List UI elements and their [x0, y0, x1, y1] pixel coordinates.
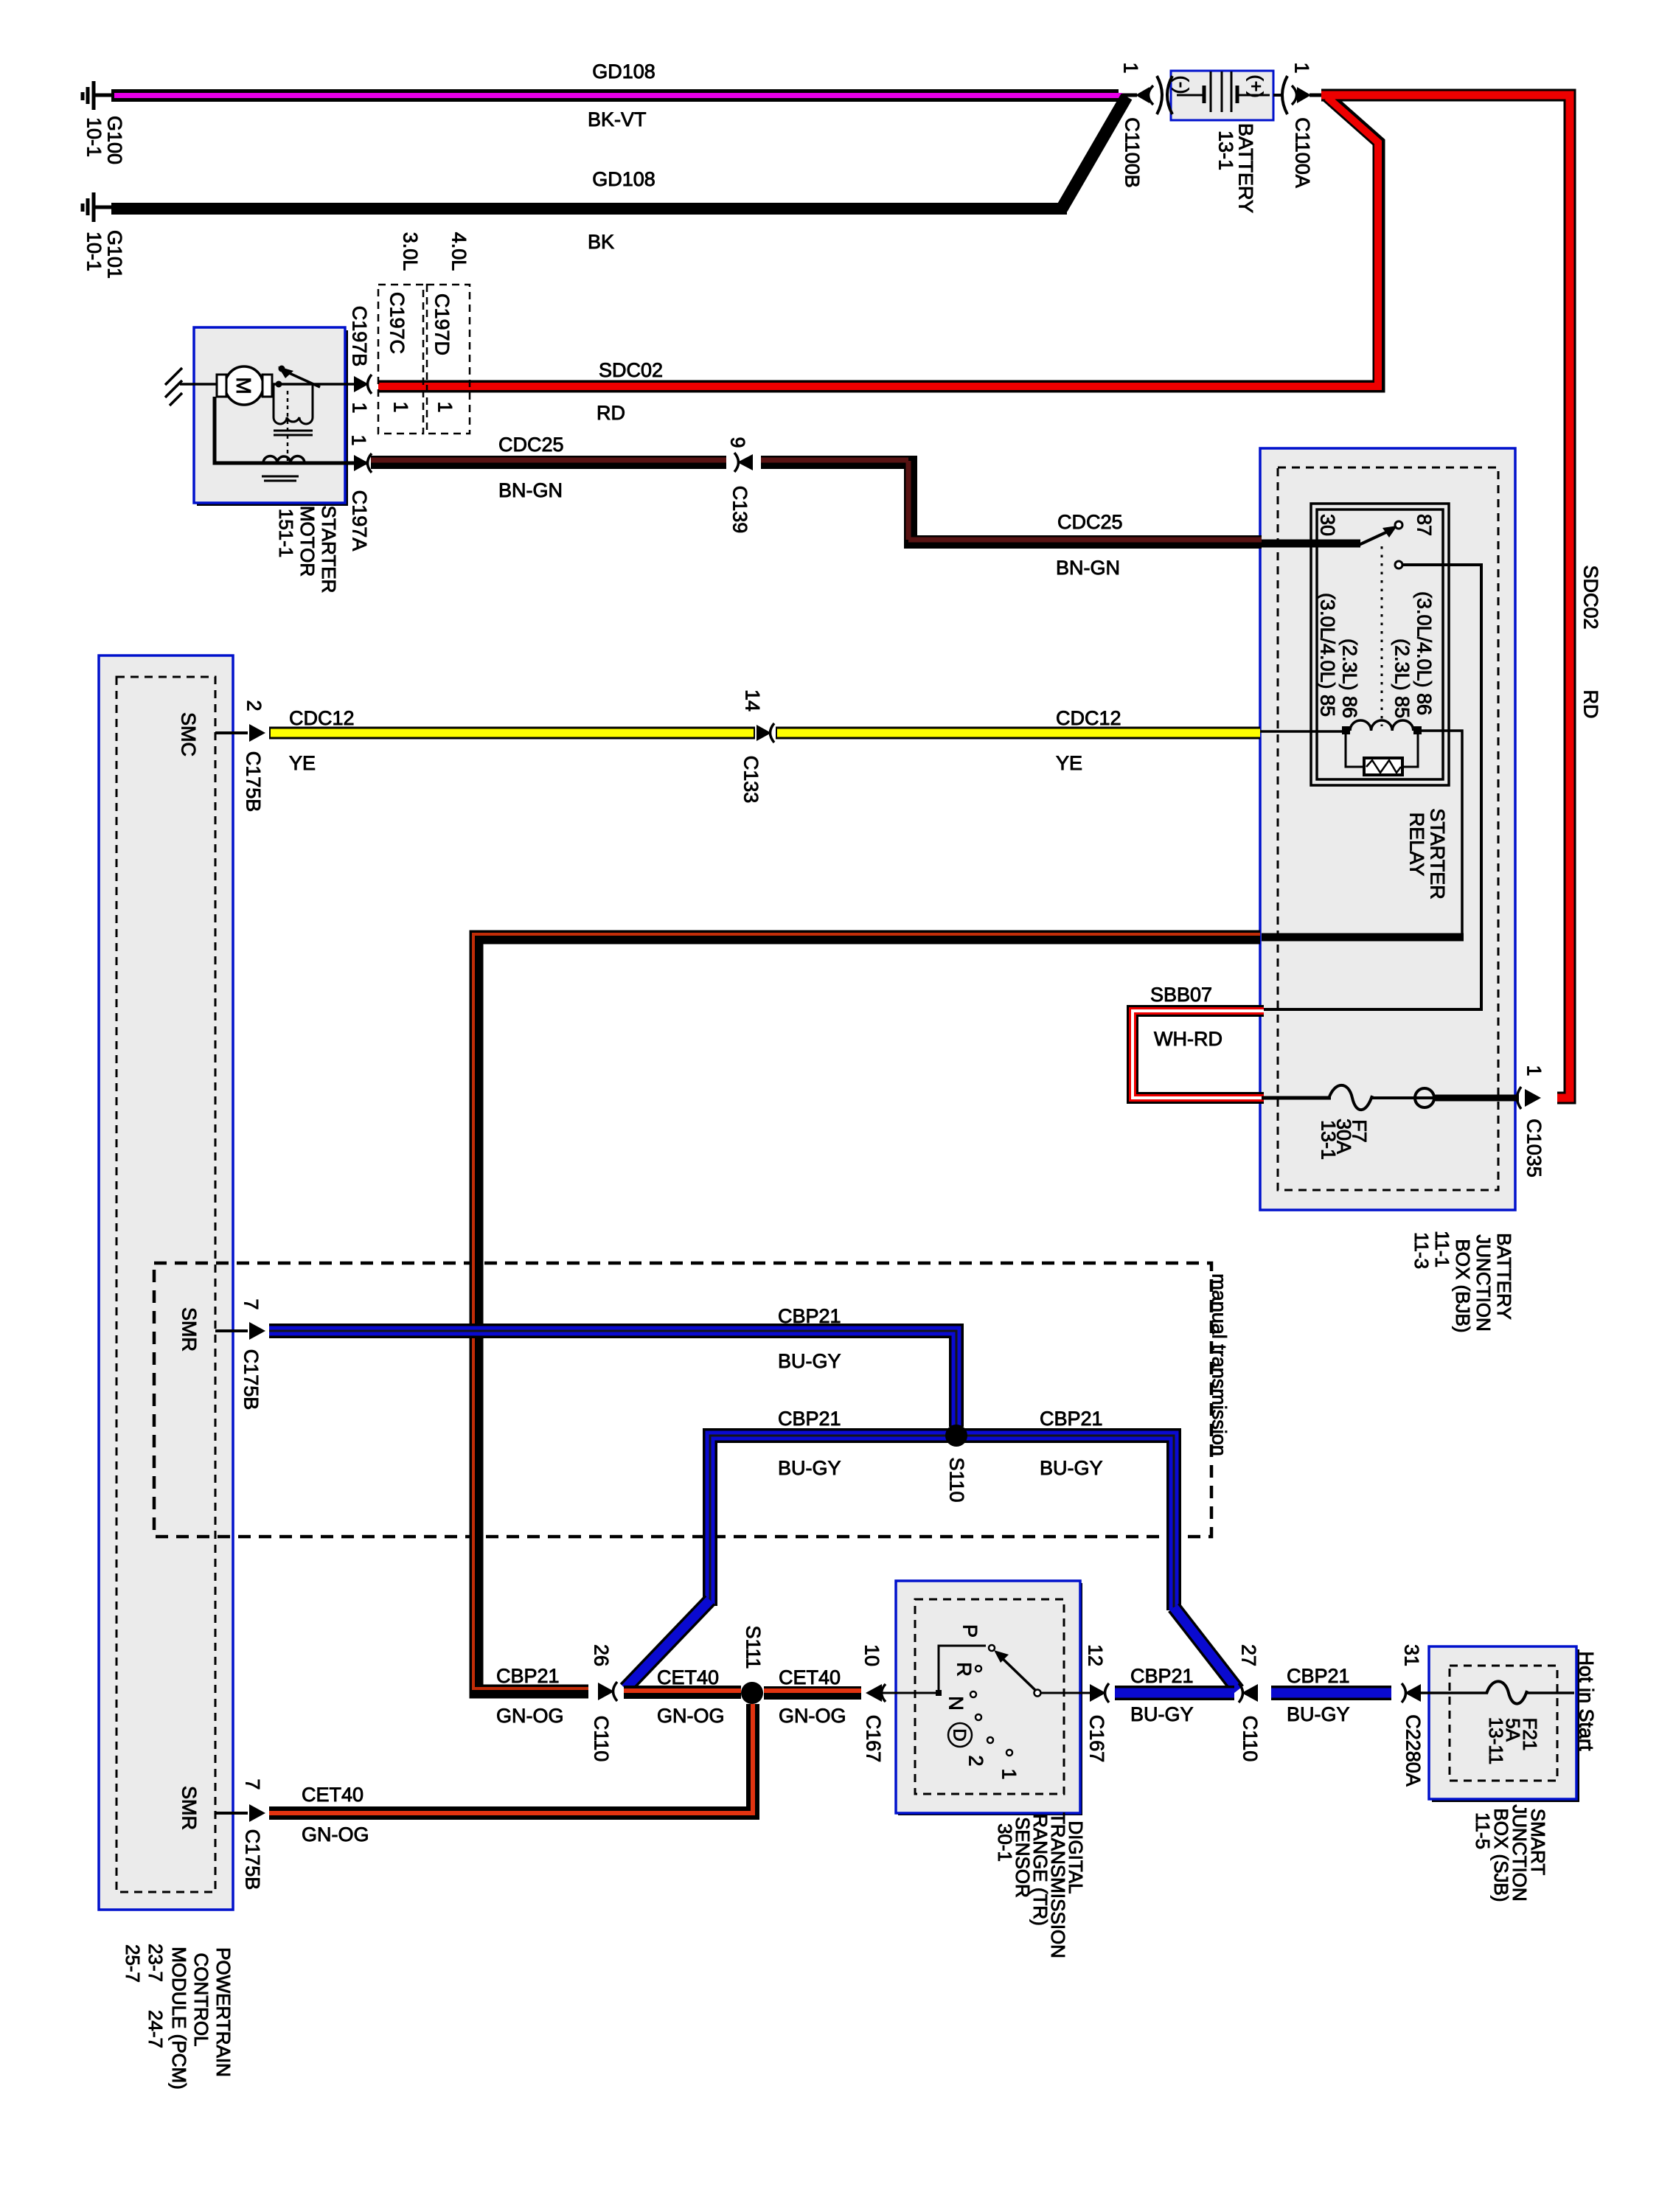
wire CET40 GN-OG from PCM SMR bottom to S111 [215, 1812, 248, 1815]
svg-text:13-1: 13-1 [1318, 1120, 1340, 1160]
svg-text:CBP21: CBP21 [778, 1408, 841, 1430]
wire CDC25 BN-GN from starter to C139 [371, 456, 726, 469]
svg-text:BN-GN: BN-GN [1056, 557, 1120, 579]
svg-text:C167: C167 [863, 1715, 885, 1763]
smart junction box SJB [1429, 1646, 1576, 1799]
svg-text:POWERTRAIN: POWERTRAIN [212, 1947, 234, 2077]
svg-text:Hot in Start: Hot in Start [1576, 1651, 1598, 1751]
wire CBP21 BU-GY S110 horizontal [710, 1436, 1174, 1610]
svg-text:CBP21: CBP21 [1287, 1665, 1350, 1687]
svg-text:BK-VT: BK-VT [588, 108, 647, 131]
svg-text:BU-GY: BU-GY [778, 1350, 841, 1372]
wire CDC12 YE right segment [776, 727, 1260, 740]
connector C1100A arrow [1297, 87, 1311, 103]
svg-text:1: 1 [349, 402, 371, 413]
wire CBP21 BU-GY C110 to C2280A [1271, 1686, 1391, 1700]
svg-text:C1100A: C1100A [1292, 117, 1314, 188]
wire SDC02 RD branch diagonal to starter [378, 97, 1379, 386]
svg-text:P: P [959, 1624, 981, 1638]
starter solenoid switch line [272, 383, 369, 386]
svg-text:RD: RD [1580, 690, 1602, 719]
solenoid dashed actuator [287, 391, 289, 462]
TR contacts [989, 1645, 995, 1651]
wire CDC12 YE left segment [269, 727, 755, 740]
svg-text:SDC02: SDC02 [1580, 565, 1602, 629]
connector C133 arrow [757, 725, 771, 741]
svg-text:CET40: CET40 [302, 1784, 364, 1806]
svg-text:GN-OG: GN-OG [302, 1823, 369, 1846]
svg-text:31: 31 [1401, 1644, 1423, 1666]
connector C139 arrow [737, 454, 753, 470]
svg-text:(-): (-) [1171, 76, 1192, 94]
wire CET40 GN-OG S111 to C167 pin 10 [764, 1686, 861, 1700]
wire SBB07 WH-RD loop [1133, 1011, 1264, 1098]
connector C197B arrow [354, 376, 369, 392]
digital transmission range TR sensor box [896, 1581, 1080, 1813]
connector C2280A pin 31 arrow [1405, 1684, 1421, 1702]
ground G101 [83, 192, 114, 222]
resistor parallel links [1346, 734, 1364, 767]
svg-text:C197B: C197B [349, 306, 371, 367]
relay switch arm [1359, 531, 1389, 545]
svg-text:YE: YE [289, 752, 316, 774]
svg-text:G100: G100 [104, 116, 126, 164]
svg-text:BU-GY: BU-GY [1287, 1703, 1350, 1725]
svg-text:GN-OG: GN-OG [779, 1705, 846, 1727]
connector C1100A parens [1282, 76, 1287, 114]
svg-text:SMC: SMC [178, 712, 200, 757]
svg-text:1: 1 [348, 434, 370, 445]
fuse F7 [1329, 1085, 1372, 1110]
svg-text:JUNCTION: JUNCTION [1472, 1234, 1495, 1331]
svg-text:BATTERY: BATTERY [1493, 1233, 1515, 1320]
svg-text:C1100B: C1100B [1121, 117, 1144, 188]
blue diagonal to C110 pin 27 [1174, 1607, 1238, 1690]
svg-text:7: 7 [240, 1298, 262, 1310]
svg-text:SMR: SMR [178, 1786, 201, 1830]
svg-text:R: R [953, 1662, 975, 1677]
connector C167 pin 12 arrow [1090, 1684, 1106, 1702]
svg-text:25-7: 25-7 [122, 1944, 144, 1983]
svg-text:GN-OG: GN-OG [496, 1705, 564, 1727]
svg-text:C110: C110 [591, 1716, 613, 1762]
svg-text:151-1: 151-1 [275, 509, 297, 558]
svg-text:RD: RD [597, 402, 625, 424]
svg-text:CDC25: CDC25 [498, 434, 564, 456]
svg-text:87: 87 [1413, 514, 1436, 536]
connector C167 pin 10 arrow [866, 1684, 882, 1702]
relay coil [1342, 726, 1350, 734]
svg-text:C197A: C197A [349, 490, 371, 552]
svg-text:CDC12: CDC12 [1056, 707, 1121, 729]
svg-text:C139: C139 [729, 486, 751, 534]
svg-text:C133: C133 [740, 756, 762, 804]
svg-text:10: 10 [861, 1644, 883, 1666]
solenoid pull-in winding [274, 384, 313, 435]
battery cell plates [1177, 72, 1270, 112]
SJB inner dashed border [1450, 1666, 1557, 1781]
blue diagonal to C110 pin 26 [625, 1600, 710, 1688]
fuse F21 [1486, 1681, 1527, 1703]
motor brushes [217, 375, 226, 397]
connector C1100B arrow [1135, 87, 1150, 103]
svg-text:9: 9 [727, 437, 749, 448]
svg-text:G101: G101 [104, 230, 126, 279]
SJB fuse feed [1430, 1691, 1488, 1694]
svg-text:(3.0L/4.0L) 85: (3.0L/4.0L) 85 [1317, 593, 1339, 717]
svg-text:1: 1 [1120, 62, 1142, 73]
svg-text:30: 30 [1317, 514, 1339, 536]
svg-text:2: 2 [965, 1755, 987, 1766]
svg-text:14: 14 [742, 689, 764, 712]
svg-text:1: 1 [1291, 62, 1313, 73]
svg-text:BATTERY: BATTERY [1235, 123, 1257, 213]
dashed box C197D 4.0L [427, 285, 470, 434]
svg-text:C197C: C197C [386, 292, 408, 354]
svg-text:GD108: GD108 [592, 168, 655, 190]
svg-text:S110: S110 [946, 1457, 968, 1502]
svg-text:D: D [950, 1728, 970, 1741]
switch junction dots [276, 381, 282, 388]
fuse feed line [1262, 1096, 1331, 1100]
relay 85 output [1422, 731, 1462, 935]
wire SDC02 RD main from battery to BJB right side [1321, 95, 1570, 1098]
svg-text:1: 1 [1523, 1065, 1545, 1076]
connector C1100B parens [1157, 76, 1162, 114]
starter relay outer box [1311, 504, 1449, 785]
svg-text:GD108: GD108 [592, 60, 655, 83]
relay actuator dotted line [1381, 546, 1383, 726]
connector C175B pin 2 arrow [249, 724, 265, 742]
svg-text:BOX (BJB): BOX (BJB) [1452, 1239, 1474, 1332]
junction S111 [741, 1682, 763, 1704]
svg-text:11-1: 11-1 [1431, 1231, 1453, 1267]
PCM pin SMC line [215, 731, 248, 734]
svg-text:GN-OG: GN-OG [657, 1705, 725, 1727]
battery junction box BJB [1260, 448, 1515, 1210]
smart junction box SJB shadow [1432, 1649, 1579, 1802]
svg-text:N: N [945, 1696, 967, 1711]
svg-text:CDC25: CDC25 [1057, 511, 1123, 533]
svg-text:C175B: C175B [242, 1829, 264, 1891]
svg-text:CBP21: CBP21 [496, 1665, 560, 1687]
svg-text:C2280A: C2280A [1402, 1714, 1425, 1787]
manual transmission dashed box [154, 1263, 1211, 1537]
connector C197A arrow [354, 455, 369, 471]
svg-text:2: 2 [243, 700, 265, 711]
svg-text:1: 1 [434, 401, 456, 412]
svg-text:C110: C110 [1239, 1716, 1262, 1762]
svg-text:CONTROL: CONTROL [190, 1952, 212, 2046]
D circle [948, 1723, 972, 1747]
svg-text:C197D: C197D [431, 293, 453, 355]
svg-text:26: 26 [591, 1644, 613, 1666]
svg-text:10-1: 10-1 [83, 117, 105, 157]
relay 87 output line [1264, 565, 1481, 1009]
svg-text:CDC12: CDC12 [289, 707, 355, 729]
coil feed line [1260, 730, 1342, 733]
svg-text:11-3: 11-3 [1411, 1232, 1433, 1269]
TR sensor inner dashed border [915, 1599, 1064, 1794]
svg-text:CBP21: CBP21 [1130, 1665, 1194, 1687]
svg-text:13-1: 13-1 [1215, 131, 1237, 170]
svg-text:MOTOR: MOTOR [296, 506, 319, 577]
svg-text:SDC02: SDC02 [599, 359, 663, 381]
svg-text:MODULE (PCM): MODULE (PCM) [168, 1947, 190, 2090]
svg-text:(+): (+) [1245, 74, 1266, 97]
BJB inner dashed border [1278, 467, 1498, 1190]
svg-text:10-1: 10-1 [83, 232, 105, 271]
svg-text:SBB07: SBB07 [1150, 984, 1212, 1006]
svg-text:BU-GY: BU-GY [1130, 1703, 1194, 1725]
wire BK diagonal to battery [1062, 97, 1127, 209]
svg-text:C175B: C175B [240, 1349, 262, 1411]
junction S110 [945, 1425, 967, 1447]
solenoid hold-in winding [215, 397, 369, 481]
wire CBP21 BU-GY pin12 to C110 [1115, 1686, 1234, 1700]
svg-text:(2.3L) 85: (2.3L) 85 [1391, 639, 1413, 718]
svg-text:CET40: CET40 [779, 1666, 841, 1688]
svg-text:(3.0L/4.0L) 86: (3.0L/4.0L) 86 [1413, 591, 1436, 715]
PCM inner dashed border [116, 677, 215, 1892]
relay contact 87 [1395, 521, 1402, 529]
svg-text:(2.3L) 86: (2.3L) 86 [1339, 639, 1361, 718]
svg-text:BN-GN: BN-GN [498, 479, 563, 501]
svg-text:C167: C167 [1086, 1715, 1108, 1763]
svg-text:SMR: SMR [178, 1307, 201, 1352]
wire GD108 BK-VT [111, 89, 1119, 102]
svg-text:C1035: C1035 [1523, 1119, 1545, 1178]
svg-text:YE: YE [1056, 752, 1082, 774]
wire GD108 BK [111, 203, 1067, 215]
svg-text:12: 12 [1085, 1644, 1107, 1666]
svg-text:27: 27 [1238, 1644, 1260, 1666]
dashed box C197C 3.0L [378, 285, 423, 434]
svg-text:CBP21: CBP21 [778, 1305, 841, 1327]
starter motor M circle [225, 366, 263, 405]
svg-text:1: 1 [390, 401, 412, 412]
svg-text:BK: BK [588, 231, 614, 253]
svg-text:7: 7 [242, 1778, 264, 1790]
starter motor box shadow [197, 330, 348, 506]
wire CBP21 GN-OG from relay 85 to C110 pin 26 [476, 937, 1260, 1691]
connector C110 pin 26 arrow [598, 1683, 614, 1700]
wire CBP21 BU-GY from PCM SMR to S110 [215, 1329, 248, 1332]
svg-text:S111: S111 [742, 1625, 765, 1669]
svg-text:manual transmission: manual transmission [1208, 1273, 1231, 1456]
starter motor box [194, 327, 345, 503]
battery box [1171, 71, 1273, 120]
PCM box [99, 655, 233, 1910]
svg-text:M: M [232, 377, 255, 394]
svg-text:3.0L: 3.0L [400, 232, 422, 271]
TR sensor box shadow [898, 1583, 1082, 1815]
svg-text:CET40: CET40 [657, 1666, 719, 1688]
relay pin 30 wire [1262, 540, 1360, 548]
wire CET40 GN-OG C110 to S111 [624, 1686, 741, 1699]
svg-text:RELAY: RELAY [1406, 813, 1428, 877]
svg-text:C175B: C175B [243, 751, 265, 813]
ground G100 [83, 81, 114, 110]
svg-text:STARTER: STARTER [1427, 808, 1449, 900]
svg-text:24-7: 24-7 [145, 2010, 167, 2048]
svg-text:23-7: 23-7 [145, 1944, 167, 1982]
svg-text:13-11: 13-11 [1485, 1717, 1507, 1765]
svg-text:11-5: 11-5 [1472, 1812, 1494, 1849]
terminal circle [1372, 1096, 1436, 1099]
svg-text:BU-GY: BU-GY [1040, 1457, 1103, 1479]
connector C110 pin 27 arrow [1242, 1684, 1258, 1702]
svg-text:30-1: 30-1 [994, 1823, 1016, 1862]
TR switch arm [997, 1653, 1037, 1692]
connector C1035 arrow [1525, 1089, 1541, 1107]
svg-text:WH-RD: WH-RD [1154, 1028, 1222, 1050]
svg-text:1: 1 [998, 1768, 1020, 1779]
svg-text:CBP21: CBP21 [1040, 1408, 1103, 1430]
svg-text:BU-GY: BU-GY [778, 1457, 841, 1479]
relay resistor [1364, 758, 1402, 775]
TR sensor common line [882, 1646, 986, 1693]
wire CDC25 BN-GN from C139 to BJB [761, 462, 1262, 542]
switch arm [288, 372, 320, 387]
svg-text:STARTER: STARTER [318, 506, 340, 594]
starter motor chassis ground [165, 368, 218, 406]
svg-text:4.0L: 4.0L [448, 232, 470, 271]
